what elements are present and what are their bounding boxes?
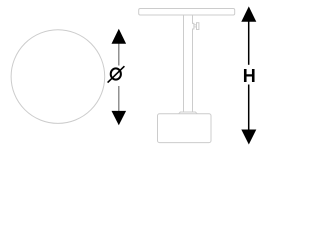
svg-text:H: H [243,66,256,86]
